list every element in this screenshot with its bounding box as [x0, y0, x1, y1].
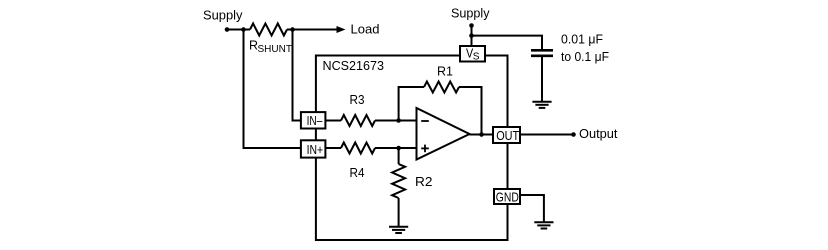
svg-text:NCS21673: NCS21673	[323, 58, 385, 73]
svg-text:R3: R3	[350, 92, 365, 107]
svg-text:Supply: Supply	[451, 6, 490, 21]
svg-text:SHUNT: SHUNT	[258, 43, 293, 55]
svg-text:Output: Output	[579, 126, 618, 141]
svg-text:IN+: IN+	[307, 143, 324, 157]
svg-text:S: S	[473, 51, 480, 63]
svg-text:IN–: IN–	[307, 114, 323, 128]
svg-text:R1: R1	[437, 63, 453, 78]
svg-text:to 0.1 μF: to 0.1 μF	[561, 49, 609, 64]
svg-text:R2: R2	[415, 174, 433, 189]
svg-text:R4: R4	[350, 165, 365, 180]
svg-text:Supply: Supply	[203, 8, 243, 23]
svg-text:Load: Load	[351, 22, 380, 37]
svg-text:GND: GND	[496, 189, 519, 204]
svg-text:OUT: OUT	[496, 128, 519, 143]
svg-text:0.01 μF: 0.01 μF	[561, 32, 603, 47]
